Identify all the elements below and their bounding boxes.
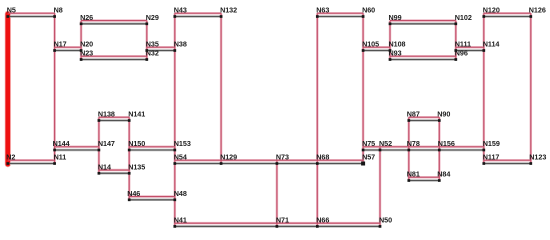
wire N117-N123 (red): [484, 159, 531, 161]
svg-text:N132: N132: [220, 6, 237, 15]
svg-text:N81: N81: [407, 170, 420, 179]
svg-text:N14: N14: [98, 162, 111, 171]
node N105: [362, 40, 379, 52]
svg-text:N84: N84: [437, 170, 450, 179]
node N96: [454, 49, 467, 61]
wire N138-N141 (black): [99, 120, 129, 122]
wire N46-N48 (black): [129, 199, 175, 201]
node N132: [220, 6, 237, 18]
svg-text:N35: N35: [146, 40, 159, 49]
node N43: [173, 6, 186, 18]
svg-text:N20: N20: [80, 40, 93, 49]
wire N41-N50 (black): [175, 225, 380, 227]
svg-text:N111: N111: [455, 40, 471, 49]
node N123: [529, 153, 546, 165]
wire N93-N96 (black): [390, 59, 456, 61]
wire N144-N147 (red): [55, 146, 99, 148]
svg-text:N147: N147: [98, 139, 115, 148]
wire N43-N41 (vertical): [174, 13, 176, 226]
node N38: [173, 40, 186, 52]
node N48: [173, 189, 186, 201]
svg-text:N29: N29: [146, 13, 159, 22]
wire N81-N84 (red): [409, 176, 440, 178]
wire N150-N153 (red): [129, 146, 175, 148]
node N135: [128, 162, 145, 174]
node N159: [482, 139, 499, 151]
wire N23-N32 (red): [81, 55, 147, 57]
wire N54-N57 (black): [175, 163, 363, 165]
svg-text:N52: N52: [379, 139, 392, 148]
wire N43-N132 (black): [175, 16, 221, 18]
wire N111-N114 (black): [456, 50, 484, 52]
svg-text:N43: N43: [174, 6, 187, 15]
wire N144-N147 (black): [55, 149, 99, 151]
svg-text:N2: N2: [6, 153, 15, 162]
wire N138-N14 (vertical): [98, 117, 100, 173]
wire N5-N8 (black): [8, 16, 55, 18]
node N126: [529, 6, 546, 18]
node N52: [379, 139, 392, 151]
svg-text:N117: N117: [483, 153, 500, 162]
svg-text:N48: N48: [174, 189, 187, 198]
wire N120-N126 (red): [484, 12, 531, 14]
feeder bus bar N5-N2 (thick red): [6, 14, 11, 164]
node N141: [128, 110, 145, 122]
wire N17-N20 (black): [55, 50, 82, 52]
node N20: [80, 40, 93, 52]
svg-text:N156: N156: [438, 139, 455, 148]
svg-text:N68: N68: [316, 153, 329, 162]
wire N120-N117 (vertical): [483, 13, 485, 163]
svg-text:N8: N8: [54, 6, 63, 15]
node N73: [276, 153, 289, 165]
wire N14-N135 (red): [99, 169, 129, 171]
wire N35-N38 (black): [147, 50, 175, 52]
node N54: [173, 153, 186, 165]
wire N132-N129 (vertical): [220, 13, 222, 163]
wire N54-N57 (red): [175, 159, 363, 161]
svg-text:N63: N63: [316, 6, 329, 15]
svg-text:N57: N57: [362, 153, 375, 162]
wire N2-N11 (black): [8, 163, 55, 165]
node N29: [145, 13, 158, 25]
svg-text:N90: N90: [437, 110, 450, 119]
node N66: [316, 215, 329, 227]
wire N111-N114 (red): [456, 46, 484, 48]
wire N105-N108 (red): [363, 46, 390, 48]
wire N99-N93 (vertical): [389, 21, 391, 60]
svg-text:N54: N54: [174, 153, 187, 162]
wire N150-N153 (black): [129, 149, 175, 151]
svg-text:N141: N141: [128, 110, 145, 119]
node N41: [173, 215, 186, 227]
svg-text:N108: N108: [389, 40, 406, 49]
node N23: [80, 49, 93, 61]
wire N87-N81 (vertical): [408, 117, 410, 180]
node N144: [53, 139, 70, 151]
node N17: [53, 40, 66, 52]
node N102: [454, 13, 471, 25]
node N111: [454, 40, 471, 52]
svg-text:N93: N93: [389, 49, 402, 58]
node N46: [127, 189, 140, 201]
node N84: [437, 170, 450, 182]
node N93: [389, 49, 402, 61]
node N63: [316, 6, 329, 18]
wire N63-N60 (black): [317, 16, 363, 18]
svg-text:N135: N135: [128, 162, 145, 171]
node N75: [362, 139, 375, 151]
wire N81-N84 (black): [409, 180, 440, 182]
wire N63-N66 (vertical): [316, 13, 318, 226]
wire N93-N96 (red): [390, 55, 456, 57]
svg-text:N159: N159: [483, 139, 500, 148]
wire N63-N60 (red): [317, 12, 363, 14]
wire N90-N84 (vertical): [438, 117, 440, 180]
wire N141-N46 (vertical): [128, 117, 130, 200]
wire N26-N23 (vertical): [80, 21, 82, 60]
wire N102-N96 (vertical): [455, 21, 457, 60]
wire N52-N50 (vertical): [379, 147, 381, 227]
wire N29-N32 (vertical): [146, 21, 148, 60]
svg-text:N87: N87: [407, 110, 420, 119]
node N78: [407, 139, 420, 151]
node N60: [362, 6, 375, 18]
wire N73-N71 (vertical): [276, 160, 278, 226]
node N147: [98, 139, 115, 151]
node N117: [482, 153, 499, 165]
svg-text:N38: N38: [174, 40, 187, 49]
wire N23-N32 (black): [81, 59, 147, 61]
wire N105-N108 (black): [363, 50, 390, 52]
svg-text:N71: N71: [276, 215, 289, 224]
node N99: [389, 13, 402, 25]
wire N60-N57 (vertical): [362, 13, 364, 163]
svg-text:N96: N96: [455, 49, 468, 58]
node N50: [379, 215, 392, 227]
wire N26-N29 (red): [81, 20, 147, 22]
wire N87-N90 (red): [409, 116, 440, 118]
svg-text:N41: N41: [174, 215, 187, 224]
svg-text:N26: N26: [80, 13, 93, 22]
wire N99-N102 (red): [390, 20, 456, 22]
svg-text:N114: N114: [483, 40, 500, 49]
svg-text:N5: N5: [7, 6, 16, 15]
wire N75-N159 (black): [363, 149, 484, 151]
node N138: [98, 110, 115, 122]
wire N5-N8 (red): [8, 12, 55, 14]
node N5: [6, 6, 15, 18]
node N129: [220, 153, 237, 165]
wire N26-N29 (black): [81, 23, 147, 25]
svg-text:N120: N120: [483, 6, 500, 15]
svg-text:N78: N78: [407, 139, 420, 148]
wire N120-N126 (black): [484, 16, 531, 18]
node N114: [482, 40, 499, 52]
svg-text:N105: N105: [362, 40, 379, 49]
node N35: [145, 40, 158, 52]
wire N117-N123 (black): [484, 163, 531, 165]
svg-text:N126: N126: [529, 6, 546, 15]
svg-text:N138: N138: [98, 110, 115, 119]
svg-text:N75: N75: [362, 139, 375, 148]
svg-text:N66: N66: [316, 215, 329, 224]
wire N41-N50 (red): [175, 222, 380, 224]
node N2: [6, 153, 15, 165]
svg-text:N11: N11: [54, 153, 67, 162]
node N57: [361, 153, 375, 166]
svg-text:N17: N17: [54, 40, 67, 49]
wire N87-N90 (black): [409, 120, 440, 122]
node N156: [438, 139, 455, 151]
wire N99-N102 (black): [390, 23, 456, 25]
svg-text:N50: N50: [379, 215, 392, 224]
node N150: [128, 139, 145, 151]
svg-text:N153: N153: [174, 139, 191, 148]
svg-text:N23: N23: [80, 49, 93, 58]
wire N2-N11 (red): [8, 159, 55, 161]
wire N35-N38 (red): [147, 46, 175, 48]
node N32: [145, 49, 158, 61]
wire N43-N132 (red): [175, 12, 221, 14]
svg-text:N99: N99: [389, 13, 402, 22]
svg-text:N32: N32: [146, 49, 159, 58]
svg-text:N129: N129: [220, 153, 237, 162]
node N153: [173, 139, 190, 151]
node N71: [276, 215, 289, 227]
node N68: [316, 153, 329, 165]
wire N46-N48 (red): [129, 196, 175, 198]
svg-text:N144: N144: [53, 139, 70, 148]
svg-text:N150: N150: [128, 139, 145, 148]
wire N126-N123 (vertical): [530, 13, 532, 163]
svg-text:N60: N60: [362, 6, 375, 15]
node N108: [389, 40, 406, 52]
node N120: [482, 6, 499, 18]
node N14: [98, 162, 111, 174]
node N11: [53, 153, 66, 165]
node N81: [407, 170, 420, 182]
node N26: [80, 13, 93, 25]
svg-text:N46: N46: [127, 189, 140, 198]
node N87: [407, 110, 420, 122]
wire N17-N20 (red): [55, 46, 82, 48]
node N90: [437, 110, 450, 122]
svg-text:N102: N102: [455, 13, 472, 22]
svg-text:N73: N73: [276, 153, 289, 162]
wire N8-N11 (vertical): [54, 13, 56, 163]
node N8: [53, 6, 62, 18]
wire N75-N159 (red): [363, 146, 484, 148]
wire N14-N135 (black): [99, 172, 129, 174]
wire N138-N141 (red): [99, 116, 129, 118]
svg-text:N123: N123: [529, 153, 546, 162]
